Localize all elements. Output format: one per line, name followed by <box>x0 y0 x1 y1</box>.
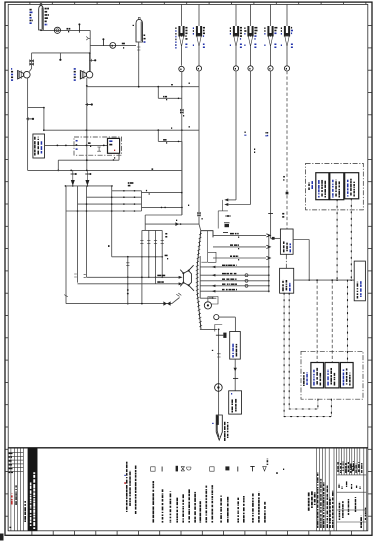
instrument circle x=199.0 <box>196 66 201 71</box>
valve on pump1 suction <box>31 53 33 69</box>
utility connection x=181.5 <box>178 26 184 47</box>
collector vertical right x268.8 <box>268 235 270 292</box>
step bracket <box>215 325 222 332</box>
wire: pump1 discharge <box>27 78 29 170</box>
sample box A <box>230 332 241 360</box>
small valve <box>97 147 101 151</box>
wire: y283.8 <box>78 283 179 285</box>
wire: y52.9 suction header <box>32 52 90 54</box>
instrument circle x=287.0 <box>284 66 289 71</box>
vessel T-2 <box>136 20 143 43</box>
bypass loop 2 <box>157 130 159 141</box>
wire: column x270.5 down to box1 <box>270 71 272 238</box>
instrument circle x=236.0 <box>233 66 238 71</box>
instrument circle <box>110 43 116 49</box>
future label <box>128 182 130 184</box>
label <box>189 126 190 128</box>
wire: pump2 discharge <box>86 78 88 170</box>
bypass loop 1 <box>157 87 159 99</box>
box2 drops and returns <box>283 293 285 416</box>
sample circle <box>214 315 219 320</box>
wire: column x199 down <box>198 71 200 224</box>
controller box2 <box>280 268 294 293</box>
riser x111.7 <box>111 186 113 257</box>
wire rows to right lower <box>200 266 268 268</box>
MCC rect1 <box>316 173 329 200</box>
wire: box A down <box>234 359 236 391</box>
pump2 suction stub <box>89 53 91 71</box>
bracket at clarifier right <box>208 252 216 262</box>
dash-dot MCC box <box>306 163 364 210</box>
wire: box1 right corner to y280 <box>293 239 309 241</box>
riser x86.5 <box>86 186 88 277</box>
wire: x181.8 column <box>181 72 183 215</box>
wire: V1 bottom to header <box>41 29 90 31</box>
ladder rungs <box>112 190 142 192</box>
wire: y277.3 <box>87 276 179 278</box>
instrument circle x=250.5 <box>248 66 253 71</box>
wire: y280.1 long right line <box>294 279 355 281</box>
link to clarifier top <box>199 224 201 231</box>
instrument circle x=270.5 <box>268 66 273 71</box>
V2 labels <box>144 34 146 36</box>
branch to y130 line <box>28 107 44 109</box>
MCC rect2 <box>330 173 344 200</box>
wires: column stubs from top border <box>181 4 183 26</box>
pump at 26.8,74.7 <box>18 71 31 79</box>
dash-dot local panel box bottom <box>301 351 363 399</box>
dashed signal drops <box>316 280 318 362</box>
title table grid <box>316 448 366 531</box>
wire: underflow <box>200 328 217 330</box>
wire: y130.2 long line <box>44 129 199 131</box>
labels mid column <box>245 131 246 133</box>
rev table smudges <box>9 453 13 454</box>
wire: snake path <box>142 192 182 194</box>
LCP rect2 <box>325 363 339 388</box>
wire: y303.6 <box>66 303 172 305</box>
spray hanger 1 <box>72 170 74 180</box>
wire: V2 drain down <box>138 42 140 87</box>
wire: y160.2 <box>57 160 59 170</box>
valve on x181.8 <box>180 109 184 114</box>
utility connection x=270.5 <box>267 26 273 47</box>
overflow collector top <box>207 231 209 263</box>
mixer blob on clarifier left <box>180 265 194 291</box>
riser x77.5 <box>77 186 79 283</box>
drop leg with dot <box>59 53 61 59</box>
local panel box <box>33 134 45 158</box>
wire: column x236 <box>235 71 237 200</box>
instrument circle with flag <box>204 302 211 309</box>
pump at 89.5,74.7 <box>80 71 92 79</box>
cross drop x127.8 <box>127 257 129 304</box>
wire: y170.4 <box>28 169 182 171</box>
MCC rect3 <box>345 173 359 199</box>
inner instrument rect <box>108 138 120 153</box>
instrument circle on x=181.5 <box>179 66 184 71</box>
vessel T-1 (top left polymer tote) <box>39 3 44 30</box>
sample box B <box>229 391 242 414</box>
controller box1 <box>280 229 293 254</box>
instrument circle FI <box>54 27 60 33</box>
vessel T-1 labels <box>30 9 32 11</box>
table text smudges <box>317 525 318 528</box>
valve on y303.6 <box>163 301 170 305</box>
wire: corner down x=90 <box>89 30 91 71</box>
vendor panel tall box <box>354 261 365 301</box>
check valve pump2 <box>85 104 91 106</box>
label on line <box>67 28 69 30</box>
wire: x287 dashed signal <box>286 71 288 229</box>
check valve mark <box>26 118 33 120</box>
comb distributor <box>142 229 162 231</box>
notes column 1 <box>124 475 125 476</box>
spray hanger 2 <box>86 170 88 180</box>
wire: down to sump x218.6 <box>218 329 220 415</box>
LCP rect1 <box>311 363 324 388</box>
sock / sump funnel <box>216 415 222 440</box>
collector down from arrows <box>222 200 224 211</box>
small marks between legend and table <box>276 472 277 474</box>
wire: y86.7 long line <box>87 86 199 88</box>
LCP rect3 <box>340 363 353 388</box>
feed to comb <box>144 224 146 230</box>
utility connection x=199.0 <box>196 26 202 47</box>
wire: header y185.9 <box>65 185 112 187</box>
clarifier inner line <box>199 256 201 298</box>
clarifier cone <box>196 231 213 330</box>
black logo strip <box>28 448 37 531</box>
wire: box to dashed panel <box>45 144 108 146</box>
utility connection x=236.0 <box>233 26 239 47</box>
wire: column x250.5 <box>250 71 252 205</box>
dash-dot panel boundary <box>74 137 122 155</box>
legend <box>151 467 155 471</box>
wire: y45.4 branch <box>90 44 136 46</box>
wires from MCC down <box>336 200 338 280</box>
reducer flag <box>86 37 90 41</box>
wire: y256.8 <box>112 256 163 258</box>
title block top heavy line <box>8 447 368 449</box>
flange marks <box>225 215 231 217</box>
flow circle <box>215 384 223 392</box>
vent tick 2 <box>102 39 104 46</box>
vent tick <box>78 24 80 33</box>
delta revision triangle <box>351 466 355 471</box>
utility connection x=287.0 <box>284 26 290 47</box>
label <box>122 43 125 45</box>
wire rows to right upper <box>213 234 266 236</box>
riser x66 <box>65 186 67 304</box>
owner block bold text <box>308 507 310 510</box>
utility connection x=250.5 <box>247 26 253 47</box>
dash-dot link <box>285 254 287 268</box>
corner mark bottom-left <box>0 534 4 541</box>
revision table left <box>8 448 37 531</box>
